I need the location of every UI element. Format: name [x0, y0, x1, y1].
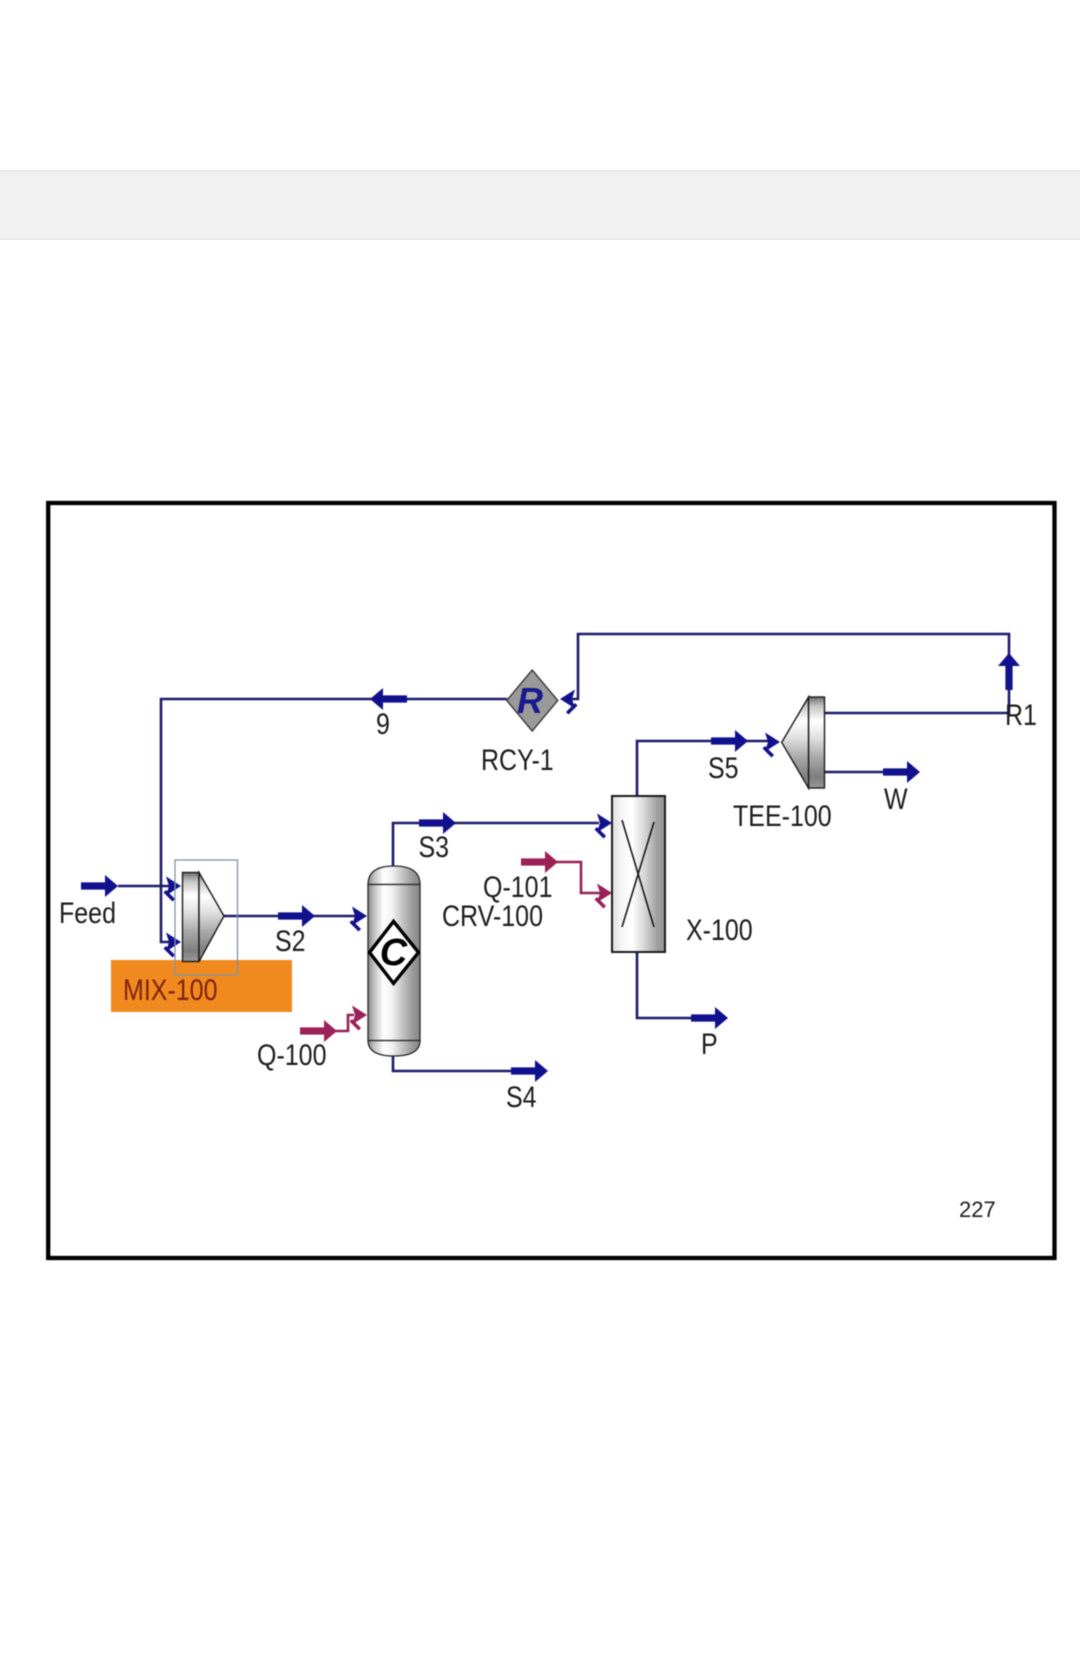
svg-text:S3: S3: [419, 830, 450, 864]
svg-text:R: R: [517, 680, 543, 721]
svg-text:TEE-100: TEE-100: [733, 799, 832, 833]
svg-text:W: W: [884, 782, 908, 816]
svg-text:P: P: [701, 1027, 718, 1061]
svg-text:9: 9: [376, 707, 390, 741]
svg-text:MIX-100: MIX-100: [123, 973, 217, 1007]
svg-text:S5: S5: [708, 751, 739, 785]
svg-text:S4: S4: [506, 1080, 537, 1114]
svg-text:X-100: X-100: [686, 913, 753, 947]
svg-text:227: 227: [959, 1197, 996, 1222]
svg-text:Q-100: Q-100: [257, 1038, 326, 1072]
svg-text:RCY-1: RCY-1: [481, 743, 554, 777]
svg-text:CRV-100: CRV-100: [442, 899, 543, 933]
svg-text:Feed: Feed: [59, 896, 116, 930]
svg-text:C: C: [380, 932, 408, 974]
svg-text:S2: S2: [275, 924, 306, 958]
svg-text:R1: R1: [1005, 698, 1037, 732]
